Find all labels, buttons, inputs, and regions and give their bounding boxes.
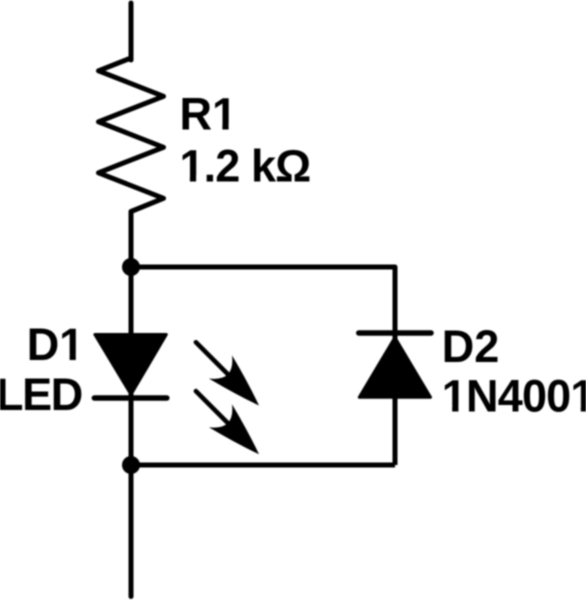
diode D2 cathode bar [359, 330, 431, 335]
svg-text:R1: R1 [180, 88, 238, 139]
foot patch R1 [214, 124, 237, 132]
wire bottom lead [129, 465, 134, 597]
foot patch 1.2 [182, 176, 205, 184]
LED D1 triangle [95, 335, 166, 395]
svg-text:D1: D1 [27, 319, 85, 370]
node top junction [122, 258, 140, 276]
wire resistor to top node [129, 212, 134, 268]
svg-text:1.2 kΩ: 1.2 kΩ [180, 141, 311, 192]
LED D1 cathode bar [94, 395, 167, 400]
LED light arrow 2 shaft [196, 391, 228, 423]
wire bottom node to D2 [131, 463, 395, 468]
svg-text:1N4001: 1N4001 [442, 371, 586, 422]
svg-text:LED: LED [0, 369, 82, 420]
LED light arrow 1 shaft [196, 342, 228, 374]
svg-text:D2: D2 [442, 321, 500, 372]
wire through LED branch [129, 267, 134, 465]
wire top lead [129, 3, 134, 60]
diode D2 triangle [359, 338, 430, 398]
foot patch D1 [61, 354, 84, 362]
node bottom junction [122, 456, 140, 474]
LED light arrow 1 head [209, 355, 259, 405]
foot patch 1N4001 [444, 406, 581, 414]
LED light arrow 2 head [209, 404, 259, 454]
wire top node to D2 [131, 267, 395, 465]
resistor R1 [99, 58, 164, 212]
